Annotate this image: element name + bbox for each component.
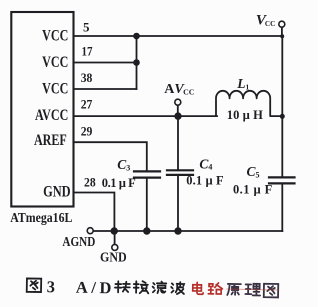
caption red highlight streak [227, 288, 278, 291]
svg-text:3: 3 [47, 277, 56, 296]
svg-text:C5: C5 [247, 164, 260, 179]
wire right rail lower [281, 184, 283, 232]
capacitor C3 [134, 171, 160, 177]
svg-text:L1: L1 [236, 76, 249, 91]
caption hanzi tu2 (diagram) [264, 284, 279, 298]
wire AVcc terminal stub [177, 105, 179, 116]
svg-text:AGND: AGND [62, 234, 95, 249]
svg-text:27: 27 [81, 97, 93, 112]
svg-text:AVCC: AVCC [35, 108, 68, 125]
svg-text:0.1 µ F: 0.1 µ F [186, 173, 224, 187]
wire Vcc terminal stub [281, 27, 283, 36]
node junction pin17 tie [133, 59, 140, 66]
wire bottom ground rail [93, 230, 282, 232]
wire VCC tie vertical [136, 36, 138, 89]
svg-text:AREF: AREF [34, 133, 67, 150]
node rail GND junction [111, 227, 118, 234]
wire pin38 VCC [74, 88, 137, 90]
svg-text:C3: C3 [117, 157, 130, 172]
terminal GND open circle [112, 244, 118, 250]
svg-text:GND: GND [43, 183, 71, 201]
wire pin28 GND down to rail [74, 193, 115, 232]
svg-text:0.1 µ F: 0.1 µ F [102, 176, 136, 190]
terminal AGND open circle [87, 228, 93, 234]
node rail C4 junction [174, 227, 181, 234]
node rail C3 junction [143, 227, 150, 234]
svg-text:0.1 µ F: 0.1 µ F [233, 182, 273, 196]
inductor L1 [216, 91, 282, 116]
terminal Vcc open circle [279, 21, 285, 27]
wire C4 to rail [177, 175, 179, 231]
capacitor C5 [269, 177, 295, 183]
wire pin5 VCC to top-right corner [74, 35, 283, 37]
caption hanzi huan (conversion) [134, 281, 149, 293]
wire pin17 VCC [74, 62, 137, 64]
caption hanzi li (theory) [245, 284, 260, 296]
wire AVcc node down to C4 [177, 116, 179, 170]
caption hanzi lu (circuit red) [208, 283, 222, 294]
svg-text:A/D: A/D [76, 278, 112, 298]
caption hanzi tu (figure) [27, 278, 42, 292]
svg-text:28: 28 [84, 175, 96, 190]
svg-text:10 µ H: 10 µ H [227, 108, 263, 122]
wire pin27 AVCC to inductor [74, 115, 218, 117]
wire right rail upper [281, 36, 283, 177]
svg-text:17: 17 [82, 43, 93, 58]
caption hanzi dian (electric red) [193, 282, 204, 294]
caption hanzi bo (wave) [171, 282, 184, 294]
caption figure 3 [27, 277, 279, 300]
capacitor C4 [167, 170, 193, 175]
caption hanzi yuan (principle) [227, 284, 241, 295]
svg-text:C4: C4 [199, 156, 212, 171]
svg-text:VCC: VCC [42, 28, 68, 45]
op-amp U1 ATmega16L body [11, 12, 73, 207]
svg-text:GND: GND [100, 248, 127, 264]
node AVcc junction [174, 112, 181, 119]
wire C3 to rail [146, 178, 148, 231]
svg-text:VCC: VCC [42, 55, 68, 72]
terminal AVcc open circle [175, 99, 181, 105]
caption hanzi lv (filter) [153, 281, 167, 293]
wire GND terminal stub [114, 231, 116, 245]
caption hanzi zhuan (convert) [115, 281, 130, 292]
node inductor rail junction [280, 114, 285, 119]
svg-text:5: 5 [83, 20, 90, 35]
node corner top-right [280, 34, 284, 38]
svg-text:ATmega16L: ATmega16L [10, 209, 73, 225]
svg-text:AVCC: AVCC [164, 82, 194, 97]
svg-text:29: 29 [81, 124, 93, 139]
wire pin29 AREF to C3 [74, 142, 147, 171]
svg-text:38: 38 [81, 70, 93, 85]
svg-text:VCC: VCC [256, 13, 275, 29]
svg-text:VCC: VCC [42, 81, 68, 98]
node junction pin5 tie [133, 33, 140, 40]
